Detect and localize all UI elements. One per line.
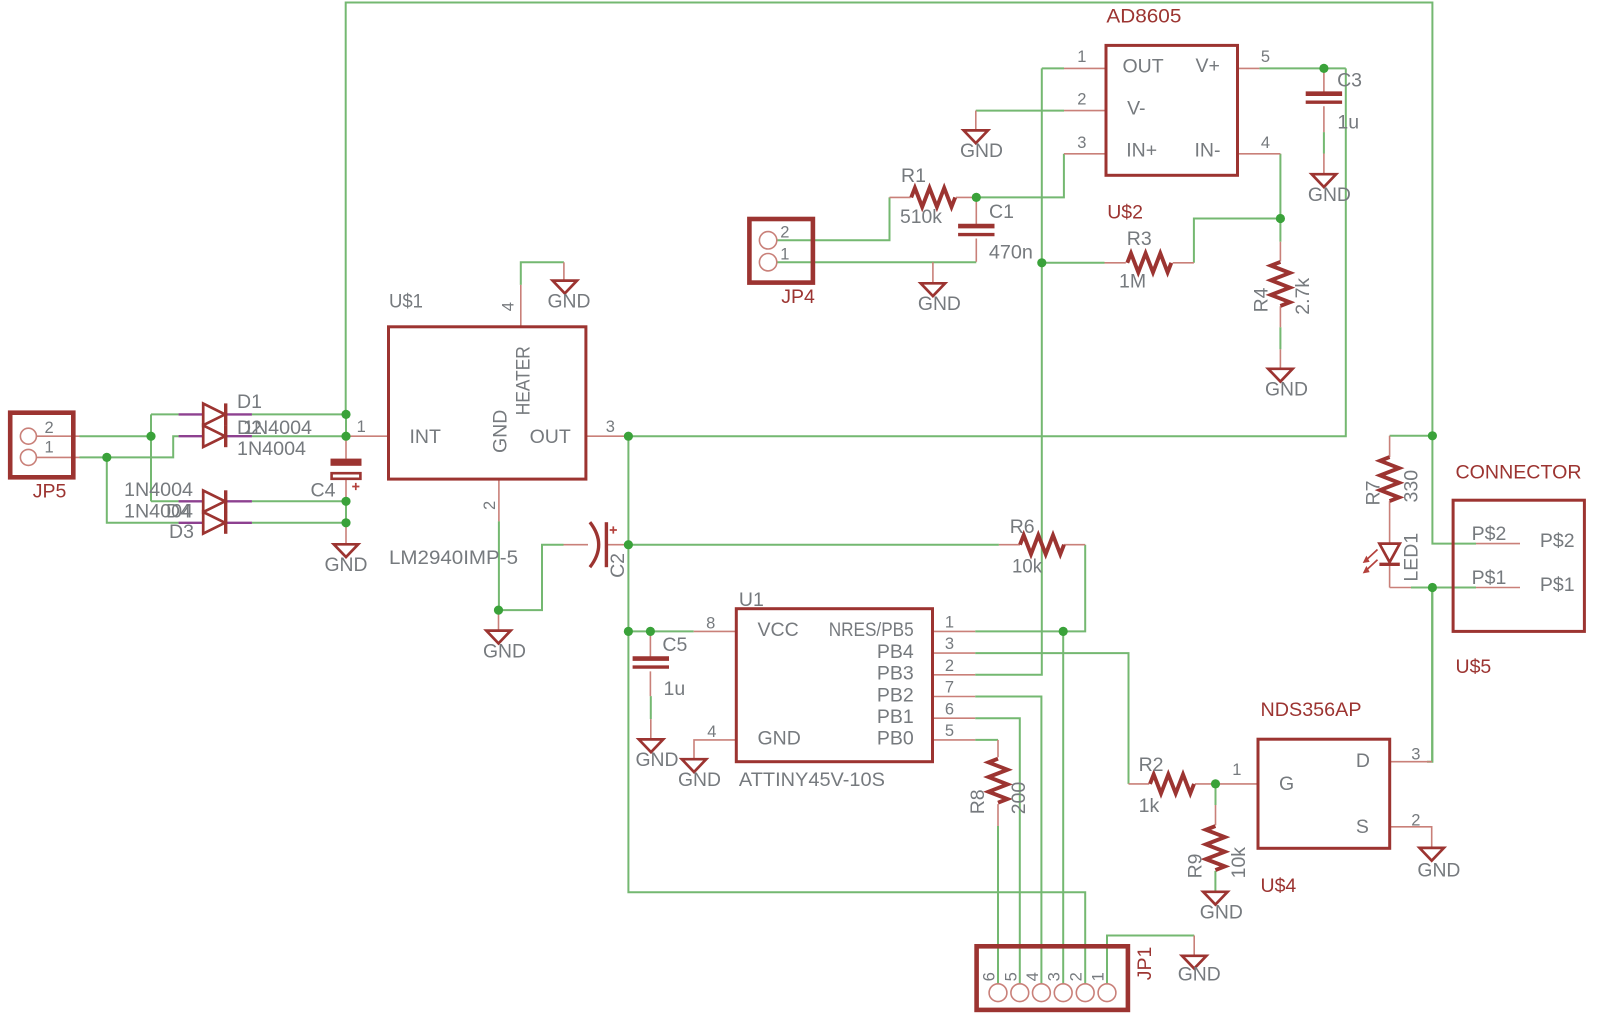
svg-text:GND: GND <box>1178 964 1221 986</box>
svg-text:R2: R2 <box>1139 754 1164 776</box>
svg-text:R4: R4 <box>1251 287 1273 312</box>
svg-text:G: G <box>1279 773 1294 795</box>
svg-text:AD8605: AD8605 <box>1106 6 1181 28</box>
svg-text:10k: 10k <box>1228 847 1250 879</box>
svg-text:D3: D3 <box>169 521 194 543</box>
svg-text:IN+: IN+ <box>1126 140 1157 162</box>
svg-text:D: D <box>1356 750 1370 772</box>
svg-text:NDS356AP: NDS356AP <box>1261 699 1362 721</box>
svg-text:U$2: U$2 <box>1107 202 1143 224</box>
svg-text:LED1: LED1 <box>1400 533 1422 582</box>
svg-text:4: 4 <box>500 302 518 311</box>
svg-text:P$1: P$1 <box>1472 567 1507 589</box>
svg-text:510k: 510k <box>900 206 942 228</box>
svg-text:470n: 470n <box>989 242 1033 264</box>
svg-text:IN-: IN- <box>1195 140 1221 162</box>
svg-text:1: 1 <box>945 614 954 632</box>
svg-text:330: 330 <box>1400 470 1422 503</box>
svg-text:7: 7 <box>945 679 954 697</box>
svg-text:2: 2 <box>1411 812 1420 830</box>
svg-text:1: 1 <box>780 246 789 264</box>
svg-text:GND: GND <box>1200 901 1243 923</box>
svg-text:8: 8 <box>706 614 715 632</box>
svg-text:P$1: P$1 <box>1540 574 1575 596</box>
svg-text:2: 2 <box>945 657 954 675</box>
svg-text:10k: 10k <box>1012 556 1042 578</box>
svg-text:GND: GND <box>483 640 526 662</box>
svg-text:GND: GND <box>1308 184 1351 206</box>
svg-text:3: 3 <box>1077 134 1086 152</box>
svg-text:GND: GND <box>490 410 512 453</box>
svg-text:2.7k: 2.7k <box>1292 278 1314 315</box>
svg-text:3: 3 <box>1046 972 1064 981</box>
svg-text:R9: R9 <box>1184 853 1206 878</box>
svg-text:6: 6 <box>981 972 999 981</box>
svg-text:3: 3 <box>1411 746 1420 764</box>
svg-text:D4: D4 <box>166 501 191 523</box>
svg-text:P$2: P$2 <box>1472 523 1507 545</box>
svg-text:R7: R7 <box>1362 481 1384 506</box>
svg-text:4: 4 <box>707 723 716 741</box>
svg-text:P$2: P$2 <box>1540 530 1575 552</box>
svg-text:U$5: U$5 <box>1456 656 1492 678</box>
svg-text:3: 3 <box>945 635 954 653</box>
svg-text:2: 2 <box>780 224 789 242</box>
svg-text:GND: GND <box>1265 379 1308 401</box>
svg-text:2: 2 <box>45 419 54 437</box>
svg-text:1: 1 <box>1090 972 1108 981</box>
svg-text:S: S <box>1356 816 1369 838</box>
svg-text:JP1: JP1 <box>1134 947 1156 981</box>
svg-text:GND: GND <box>918 293 961 315</box>
svg-text:GND: GND <box>325 554 368 576</box>
svg-text:ATTINY45V-10S: ATTINY45V-10S <box>739 769 885 791</box>
svg-text:C3: C3 <box>1337 70 1362 92</box>
svg-text:1u: 1u <box>664 678 686 700</box>
svg-text:NRES/PB5: NRES/PB5 <box>829 619 914 641</box>
svg-text:1: 1 <box>357 418 366 436</box>
svg-text:2: 2 <box>481 501 499 510</box>
svg-text:1N4004: 1N4004 <box>124 479 193 501</box>
svg-text:5: 5 <box>1002 972 1020 981</box>
svg-text:GND: GND <box>678 769 721 791</box>
svg-text:JP4: JP4 <box>781 286 815 308</box>
svg-text:2: 2 <box>1077 91 1086 109</box>
svg-text:GND: GND <box>1417 860 1460 882</box>
svg-text:4: 4 <box>1261 134 1270 152</box>
svg-text:CONNECTOR: CONNECTOR <box>1456 462 1582 484</box>
svg-text:GND: GND <box>636 749 679 771</box>
svg-text:R1: R1 <box>901 165 926 187</box>
svg-text:HEATER: HEATER <box>513 346 535 415</box>
svg-text:PB2: PB2 <box>877 684 914 706</box>
svg-text:PB0: PB0 <box>877 728 914 750</box>
svg-text:GND: GND <box>960 140 1003 162</box>
svg-text:JP5: JP5 <box>33 481 67 503</box>
svg-text:D1: D1 <box>237 391 262 413</box>
svg-text:PB4: PB4 <box>877 641 914 663</box>
svg-text:C4: C4 <box>311 480 336 502</box>
svg-text:VCC: VCC <box>758 619 799 641</box>
svg-text:1N4004: 1N4004 <box>237 438 306 460</box>
svg-text:PB3: PB3 <box>877 663 914 685</box>
svg-text:U$4: U$4 <box>1261 875 1297 897</box>
svg-text:GND: GND <box>758 728 801 750</box>
svg-text:6: 6 <box>945 700 954 718</box>
svg-text:C1: C1 <box>989 201 1014 223</box>
svg-text:INT: INT <box>410 426 442 448</box>
svg-text:D2: D2 <box>237 417 262 439</box>
svg-text:2: 2 <box>1068 972 1086 981</box>
svg-text:1u: 1u <box>1337 112 1359 134</box>
svg-text:R8: R8 <box>967 789 989 814</box>
svg-text:OUT: OUT <box>1123 56 1164 78</box>
svg-text:1: 1 <box>1232 761 1241 779</box>
svg-text:LM2940IMP-5: LM2940IMP-5 <box>389 547 518 569</box>
svg-text:1M: 1M <box>1119 271 1146 293</box>
svg-text:U1: U1 <box>739 589 764 611</box>
svg-text:5: 5 <box>1261 48 1270 66</box>
svg-text:4: 4 <box>1024 972 1042 981</box>
svg-text:V+: V+ <box>1196 55 1220 77</box>
svg-text:C2: C2 <box>607 553 629 578</box>
svg-text:200: 200 <box>1008 782 1030 815</box>
svg-text:1: 1 <box>1077 48 1086 66</box>
svg-text:V-: V- <box>1127 98 1145 120</box>
svg-text:R6: R6 <box>1010 516 1035 538</box>
svg-text:R3: R3 <box>1127 228 1152 250</box>
svg-text:U$1: U$1 <box>389 291 423 313</box>
svg-text:3: 3 <box>606 418 615 436</box>
svg-text:5: 5 <box>945 722 954 740</box>
svg-text:1k: 1k <box>1139 795 1160 817</box>
svg-text:GND: GND <box>548 291 591 313</box>
svg-text:OUT: OUT <box>530 426 571 448</box>
svg-text:1: 1 <box>45 439 54 457</box>
svg-text:C5: C5 <box>662 634 687 656</box>
svg-text:PB1: PB1 <box>877 706 914 728</box>
